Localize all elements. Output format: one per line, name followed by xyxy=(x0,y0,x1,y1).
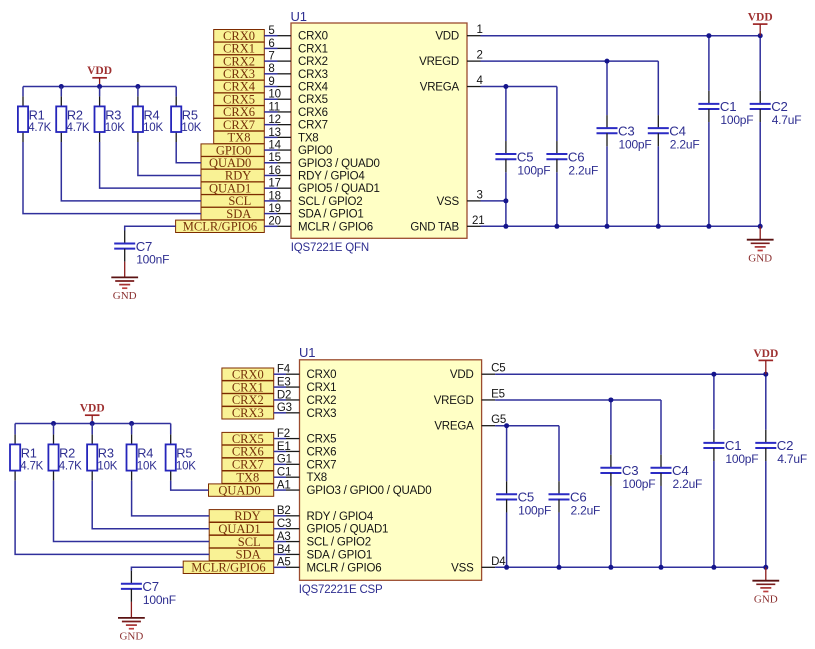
wire C3 column lower xyxy=(606,146,608,226)
junction VSS/C5 xyxy=(503,198,508,203)
wire VSS/GND rail xyxy=(495,566,766,568)
port SDA xyxy=(209,548,274,562)
pin 15 of U1 xyxy=(264,152,291,164)
wire C3 column lower xyxy=(610,486,612,567)
port GPIO0 xyxy=(201,143,264,157)
svg-text:GPIO5 / QUAD1: GPIO5 / QUAD1 xyxy=(307,524,389,536)
junction GND rail xyxy=(706,224,711,229)
pin 14 of U1 xyxy=(264,139,291,151)
svg-text:VDD: VDD xyxy=(450,369,474,381)
wire C4 column lower xyxy=(657,146,659,226)
svg-text:C5: C5 xyxy=(491,363,505,375)
wire VDD bus of resistor network xyxy=(15,423,171,425)
wire VREGA down to C6 xyxy=(556,87,558,142)
svg-text:CRX3: CRX3 xyxy=(232,406,264,420)
svg-text:20: 20 xyxy=(268,216,280,228)
port SCL xyxy=(209,535,274,549)
junction VDD/C1 xyxy=(706,33,711,38)
svg-text:C6: C6 xyxy=(570,490,586,505)
pin E5 of U1 xyxy=(482,388,505,400)
svg-text:VREGD: VREGD xyxy=(419,56,459,68)
svg-text:CRX7: CRX7 xyxy=(298,120,328,132)
wire C4 column lower xyxy=(660,486,662,567)
port CRX3 xyxy=(214,67,265,81)
svg-text:TX8: TX8 xyxy=(307,472,328,484)
svg-text:VDD: VDD xyxy=(435,31,459,43)
pin G5 of U1 xyxy=(482,414,506,426)
capacitor C5 100pF xyxy=(496,481,551,517)
capacitor C2 4.7uF xyxy=(750,91,802,127)
port CRX2 xyxy=(222,393,274,407)
svg-text:CRX5: CRX5 xyxy=(307,434,337,446)
svg-text:CRX4: CRX4 xyxy=(298,82,329,94)
wire MCLR/GPIO6 to C7 xyxy=(131,567,183,570)
junction bus xyxy=(59,84,64,89)
capacitor C4 2.2uF xyxy=(648,115,700,151)
svg-text:C1: C1 xyxy=(720,99,736,114)
pin G1 of U1 xyxy=(274,454,300,466)
svg-text:VREGD: VREGD xyxy=(434,395,474,407)
svg-text:B4: B4 xyxy=(277,544,291,556)
pin 13 of U1 xyxy=(264,127,291,139)
port CRX0 xyxy=(222,367,274,381)
svg-text:SCL / GPIO2: SCL / GPIO2 xyxy=(298,196,362,208)
wire bus to R1 xyxy=(22,87,24,97)
port CRX2 xyxy=(214,54,265,68)
svg-text:E3: E3 xyxy=(277,376,291,388)
svg-text:CRX2: CRX2 xyxy=(298,56,328,68)
capacitor C6 2.2uF xyxy=(549,481,601,517)
svg-text:CRX6: CRX6 xyxy=(307,446,337,458)
svg-text:100pF: 100pF xyxy=(517,163,550,177)
svg-text:14: 14 xyxy=(268,139,281,151)
resistor R5 10K xyxy=(171,96,202,142)
port QUAD1 xyxy=(209,522,274,536)
svg-text:18: 18 xyxy=(268,190,280,202)
svg-text:100pF: 100pF xyxy=(725,452,758,466)
svg-text:7: 7 xyxy=(268,51,274,63)
svg-text:8: 8 xyxy=(268,63,274,75)
pin 8 of U1 xyxy=(264,63,291,75)
svg-text:1: 1 xyxy=(477,24,483,36)
svg-text:GPIO0: GPIO0 xyxy=(298,145,332,157)
pin B4 of U1 xyxy=(274,544,300,556)
svg-text:2: 2 xyxy=(477,50,483,62)
svg-text:G3: G3 xyxy=(277,402,292,414)
svg-text:C2: C2 xyxy=(777,438,793,453)
svg-text:9: 9 xyxy=(268,76,274,88)
resistor R3 10K xyxy=(95,96,126,142)
svg-text:MCLR/GPIO6: MCLR/GPIO6 xyxy=(191,561,265,575)
IC U1 IQS7221E QFN xyxy=(291,9,468,254)
resistor R4 10K xyxy=(133,96,164,142)
port SDA xyxy=(201,207,264,221)
wire VDD net U1.1 to C2/VDD xyxy=(481,35,761,37)
svg-text:R2: R2 xyxy=(59,445,75,460)
junction GND rail xyxy=(763,565,768,570)
capacitor C5 100pF xyxy=(495,141,550,177)
svg-text:19: 19 xyxy=(268,203,280,215)
svg-text:VREGA: VREGA xyxy=(420,82,460,94)
svg-text:C1: C1 xyxy=(725,438,741,453)
svg-text:10K: 10K xyxy=(137,460,157,472)
pin A3 of U1 xyxy=(274,531,300,543)
svg-text:A5: A5 xyxy=(277,557,291,569)
svg-text:21: 21 xyxy=(472,215,484,227)
svg-text:R5: R5 xyxy=(182,107,198,122)
svg-text:4.7uF: 4.7uF xyxy=(772,113,802,127)
svg-text:R4: R4 xyxy=(144,107,160,122)
pin C5 of U1 xyxy=(482,363,506,375)
port CRX7 xyxy=(214,118,265,132)
junction VDD/C1 xyxy=(711,372,716,377)
svg-text:RDY / GPIO4: RDY / GPIO4 xyxy=(298,170,365,182)
svg-text:U1: U1 xyxy=(299,345,315,360)
svg-text:GND: GND xyxy=(113,290,137,302)
wire R3 to port row xyxy=(100,142,201,188)
wire VREGA net U1.4 to C6 xyxy=(481,86,557,88)
svg-text:QUAD0: QUAD0 xyxy=(218,483,260,497)
wire C1 column lower xyxy=(713,461,715,567)
wire VREGD down to C4 xyxy=(660,400,662,455)
svg-text:CRX7: CRX7 xyxy=(307,459,337,471)
wire C1 column lower xyxy=(708,122,710,226)
svg-text:2.2uF: 2.2uF xyxy=(568,163,598,177)
svg-text:GND TAB: GND TAB xyxy=(410,221,459,233)
svg-text:C7: C7 xyxy=(136,239,152,254)
svg-text:RDY / GPIO4: RDY / GPIO4 xyxy=(307,511,374,523)
svg-text:10K: 10K xyxy=(143,122,163,134)
svg-text:17: 17 xyxy=(268,178,280,190)
svg-text:10K: 10K xyxy=(176,460,196,472)
svg-text:12: 12 xyxy=(268,114,280,126)
svg-text:10K: 10K xyxy=(181,122,201,134)
wire VREGD net U1.E5 to C4 xyxy=(495,399,661,401)
pin 20 of U1 xyxy=(264,216,291,228)
svg-text:VREGA: VREGA xyxy=(434,421,474,433)
svg-text:CRX3: CRX3 xyxy=(307,408,337,420)
port SCL xyxy=(201,194,264,208)
pin 18 of U1 xyxy=(264,190,291,202)
svg-text:GND: GND xyxy=(748,252,772,264)
svg-text:5: 5 xyxy=(268,25,274,37)
wire bus to R3 xyxy=(91,424,93,435)
pin 3 of U1 xyxy=(467,189,483,201)
svg-text:VDD: VDD xyxy=(753,348,778,360)
pin 10 of U1 xyxy=(264,89,291,101)
junction GND rail xyxy=(758,224,763,229)
svg-text:R4: R4 xyxy=(137,445,153,460)
wire bus to R4 xyxy=(137,87,139,97)
svg-text:VDD: VDD xyxy=(87,65,112,77)
pin 19 of U1 xyxy=(264,203,291,215)
pin 9 of U1 xyxy=(264,76,291,88)
svg-text:2.2uF: 2.2uF xyxy=(673,477,703,491)
svg-text:B2: B2 xyxy=(277,505,291,517)
port CRX5 xyxy=(214,92,265,106)
junction bus xyxy=(51,421,56,426)
svg-text:C2: C2 xyxy=(771,99,787,114)
svg-text:C5: C5 xyxy=(518,490,534,505)
svg-text:13: 13 xyxy=(268,127,280,139)
svg-text:2.2uF: 2.2uF xyxy=(571,503,601,517)
svg-text:G1: G1 xyxy=(277,454,292,466)
resistor R4 10K xyxy=(127,434,158,480)
svg-text:R3: R3 xyxy=(105,107,121,122)
svg-text:C4: C4 xyxy=(669,123,685,138)
svg-text:10K: 10K xyxy=(105,122,125,134)
svg-text:R5: R5 xyxy=(176,445,192,460)
svg-text:C1: C1 xyxy=(277,467,291,479)
wire C2 column lower xyxy=(765,461,767,567)
svg-text:SDA / GPIO1: SDA / GPIO1 xyxy=(298,209,364,221)
svg-text:6: 6 xyxy=(268,38,274,50)
junction GND rail xyxy=(605,224,610,229)
junction VDD/C2 corner xyxy=(758,33,763,38)
pin E1 of U1 xyxy=(274,441,300,453)
junction GND rail xyxy=(656,224,661,229)
svg-text:CRX6: CRX6 xyxy=(298,107,328,119)
svg-text:R1: R1 xyxy=(21,445,37,460)
svg-text:MCLR / GPIO6: MCLR / GPIO6 xyxy=(298,221,373,233)
capacitor C6 2.2uF xyxy=(546,141,598,177)
pin A5 of U1 xyxy=(274,557,300,569)
svg-text:G5: G5 xyxy=(491,414,506,426)
svg-text:R2: R2 xyxy=(67,107,83,122)
ground GND xyxy=(752,567,779,605)
junction bus xyxy=(90,421,95,426)
svg-text:CRX0: CRX0 xyxy=(298,31,328,43)
svg-text:4.7K: 4.7K xyxy=(59,460,82,472)
wire R5 to port row xyxy=(171,481,209,490)
capacitor C1 100pF xyxy=(698,91,753,127)
svg-text:R3: R3 xyxy=(98,445,114,460)
pin F2 of U1 xyxy=(274,428,300,440)
port CRX6 xyxy=(214,105,265,119)
svg-text:4.7K: 4.7K xyxy=(67,122,90,134)
svg-text:GPIO3 / GPIO0 / QUAD0: GPIO3 / GPIO0 / QUAD0 xyxy=(307,485,432,497)
pin D2 of U1 xyxy=(274,389,300,401)
power VDD xyxy=(753,348,778,374)
ground GND xyxy=(111,262,138,302)
wire VREGD down to C4 xyxy=(657,61,659,115)
svg-text:CRX5: CRX5 xyxy=(298,94,328,106)
svg-text:A1: A1 xyxy=(277,479,291,491)
svg-text:GPIO5 / QUAD1: GPIO5 / QUAD1 xyxy=(298,183,380,195)
port RDY xyxy=(201,169,264,183)
svg-text:100nF: 100nF xyxy=(136,253,169,267)
wire C5 column lower xyxy=(505,172,507,226)
junction GND rail xyxy=(504,565,509,570)
wire R2 to port row xyxy=(54,481,210,542)
svg-text:C6: C6 xyxy=(568,149,584,164)
svg-text:C3: C3 xyxy=(277,518,291,530)
port QUAD0 xyxy=(209,483,274,497)
resistor R2 4.7K xyxy=(56,96,90,142)
wire MCLR/GPIO6 to C7 xyxy=(125,226,176,230)
capacitor C3 100pF xyxy=(597,115,652,151)
wire R5 to port row xyxy=(176,142,201,163)
pin 5 of U1 xyxy=(264,25,291,37)
junction GND rail xyxy=(711,565,716,570)
pin D4 of U1 xyxy=(482,556,507,568)
svg-text:C7: C7 xyxy=(142,579,158,594)
port CRX7 xyxy=(222,458,274,472)
port TX8 xyxy=(222,470,274,484)
port QUAD0 xyxy=(201,156,264,170)
svg-text:D2: D2 xyxy=(277,389,291,401)
port CRX3 xyxy=(222,406,274,420)
junction VREGA/C5 xyxy=(504,423,509,428)
pin 4 of U1 xyxy=(467,75,484,87)
svg-text:C4: C4 xyxy=(672,463,688,478)
junction GND rail xyxy=(503,224,508,229)
pin B2 of U1 xyxy=(274,505,300,517)
svg-text:15: 15 xyxy=(268,152,280,164)
power VDD xyxy=(80,403,105,424)
resistor R1 4.7K xyxy=(18,96,52,142)
wire bus to R4 xyxy=(131,424,133,435)
junction VREGA/C5 xyxy=(503,84,508,89)
junction GND rail xyxy=(554,224,559,229)
port TX8 xyxy=(214,131,265,145)
junction bus xyxy=(135,84,140,89)
pin 6 of U1 xyxy=(264,38,291,50)
port MCLR/GPIO6 xyxy=(176,220,265,234)
wire C5 column upper xyxy=(506,426,508,482)
wire C3 column upper xyxy=(606,61,608,115)
capacitor C7 100nF xyxy=(121,571,176,607)
svg-text:4: 4 xyxy=(477,75,484,87)
junction bus xyxy=(97,84,102,89)
pin 2 of U1 xyxy=(467,50,483,62)
resistor R3 10K xyxy=(87,434,118,480)
port MCLR/GPIO6 xyxy=(183,561,274,575)
port RDY xyxy=(209,509,274,523)
wire GND rail xyxy=(481,225,761,227)
port CRX0 xyxy=(214,29,265,43)
svg-text:100pF: 100pF xyxy=(622,477,655,491)
svg-text:CRX2: CRX2 xyxy=(307,395,337,407)
junction VREGD/C3 xyxy=(608,397,613,402)
svg-text:GPIO3 / QUAD0: GPIO3 / QUAD0 xyxy=(298,158,380,170)
wire R3 to port row xyxy=(92,481,209,529)
wire R1 to port row xyxy=(15,481,209,555)
capacitor C7 100nF xyxy=(114,230,169,266)
resistor R2 4.7K xyxy=(48,434,82,480)
svg-text:MCLR/GPIO6: MCLR/GPIO6 xyxy=(183,220,257,234)
capacitor C1 100pF xyxy=(703,430,758,466)
wire C2 column upper xyxy=(759,36,761,91)
port CRX4 xyxy=(214,80,265,94)
svg-text:4.7K: 4.7K xyxy=(20,460,43,472)
junction GND rail xyxy=(659,565,664,570)
svg-text:F4: F4 xyxy=(277,364,291,376)
svg-text:4.7K: 4.7K xyxy=(28,122,51,134)
ground GND xyxy=(747,226,774,264)
svg-text:C3: C3 xyxy=(618,123,634,138)
pin E3 of U1 xyxy=(274,376,300,388)
wire VDD net U1.C5 to C2/VDD xyxy=(495,373,766,375)
svg-text:10: 10 xyxy=(268,89,280,101)
wire bus to R3 xyxy=(99,87,101,97)
svg-text:16: 16 xyxy=(268,165,280,177)
wire VREGA down to C6 xyxy=(558,426,560,482)
junction VREGD/C3 xyxy=(605,59,610,64)
pin 21 of U1 xyxy=(467,215,484,227)
svg-text:E5: E5 xyxy=(491,388,505,400)
capacitor C4 2.2uF xyxy=(651,455,703,491)
wire C5 column lower xyxy=(506,512,508,567)
svg-text:100pF: 100pF xyxy=(518,503,551,517)
junction GND rail xyxy=(557,565,562,570)
svg-text:A3: A3 xyxy=(277,531,291,543)
wire bus to R5 xyxy=(170,424,172,435)
wire C5 column upper xyxy=(505,87,507,142)
svg-text:GND: GND xyxy=(119,631,143,643)
port CRX1 xyxy=(214,42,265,56)
wire R2 to port row xyxy=(61,142,201,201)
ground GND xyxy=(118,602,145,643)
svg-text:IQS72221E CSP: IQS72221E CSP xyxy=(299,584,383,596)
svg-text:CRX1: CRX1 xyxy=(298,43,328,55)
pin 17 of U1 xyxy=(264,178,291,190)
port CRX1 xyxy=(222,380,274,394)
resistor R5 10K xyxy=(166,434,197,480)
power VDD xyxy=(87,65,112,86)
svg-text:100nF: 100nF xyxy=(143,593,176,607)
power VDD xyxy=(748,12,773,36)
pin C3 of U1 xyxy=(274,518,300,530)
wire R1 to port row xyxy=(23,142,201,214)
pin 1 of U1 xyxy=(467,24,483,36)
wire bus to R5 xyxy=(175,87,177,97)
pin G3 of U1 xyxy=(274,402,300,414)
wire C1 column upper xyxy=(708,36,710,91)
wire R4 to port row xyxy=(132,481,210,516)
svg-text:CRX0: CRX0 xyxy=(307,369,337,381)
svg-text:MCLR / GPIO6: MCLR / GPIO6 xyxy=(307,562,382,574)
svg-text:C5: C5 xyxy=(517,149,533,164)
resistor R1 4.7K xyxy=(10,434,44,480)
svg-text:SDA / GPIO1: SDA / GPIO1 xyxy=(307,549,373,561)
svg-text:F2: F2 xyxy=(277,428,290,440)
wire C6 column lower xyxy=(556,172,558,226)
pin A1 of U1 xyxy=(274,479,300,491)
svg-text:R1: R1 xyxy=(29,107,45,122)
junction VDD/C2 corner xyxy=(763,372,768,377)
wire VREGD net U1.2 to C4 xyxy=(481,60,659,62)
wire C6 column lower xyxy=(558,512,560,567)
svg-text:IQS7221E QFN: IQS7221E QFN xyxy=(291,242,369,254)
pin 16 of U1 xyxy=(264,165,291,177)
svg-text:VSS: VSS xyxy=(451,562,474,574)
wire C2 column upper xyxy=(765,374,767,430)
svg-text:D4: D4 xyxy=(491,556,506,568)
svg-text:CRX3: CRX3 xyxy=(298,69,328,81)
wire VSS net U1.3 to C5 column xyxy=(481,200,506,202)
pin F4 of U1 xyxy=(274,364,300,376)
wire VDD bus of resistor network xyxy=(23,86,176,88)
svg-text:3: 3 xyxy=(477,189,483,201)
port QUAD1 xyxy=(201,181,264,195)
svg-text:10K: 10K xyxy=(97,460,117,472)
port CRX5 xyxy=(222,432,274,446)
wire bus to R2 xyxy=(53,424,55,435)
wire C2 column lower xyxy=(759,122,761,226)
wire bus to R2 xyxy=(60,87,62,97)
svg-text:2.2uF: 2.2uF xyxy=(670,137,700,151)
